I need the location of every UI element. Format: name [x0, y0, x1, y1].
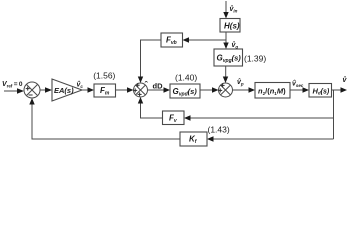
node label v_sec: [292, 79, 304, 88]
block H(s): [220, 19, 240, 33]
wire Gvpg to S3 top: [223, 66, 228, 83]
op-amp block EA(s): [52, 79, 82, 101]
node label v out: [343, 76, 348, 84]
summing junction S1: [24, 82, 40, 98]
equation label (1.43): [208, 125, 230, 135]
wire Fv to S2 bottom: [138, 97, 163, 118]
node label dD: [145, 80, 163, 91]
equation label (1.39): [244, 53, 266, 63]
wire S3 to transformer block: [233, 87, 256, 92]
input wire v_in: [223, 1, 228, 19]
label Vref = 0: [2, 81, 23, 88]
svg-text:dD: dD: [153, 82, 164, 91]
svg-text:(1.39): (1.39): [244, 53, 266, 63]
equation label (1.56): [93, 70, 115, 80]
svg-text:v̂in: v̂in: [230, 5, 238, 14]
block Fv: [163, 111, 185, 125]
wire feedback to block Fv: [184, 115, 334, 120]
block Gvpd(s): [170, 84, 200, 98]
wire EA to block Fm: [82, 87, 94, 92]
block Gvpg(s): [214, 49, 243, 66]
wire Fvb to S2 top: [138, 40, 161, 83]
svg-text:ˆ: ˆ: [145, 80, 149, 90]
block Kf: [180, 132, 207, 146]
equation label (1.40): [175, 73, 197, 83]
svg-text:v̂: v̂: [343, 76, 348, 84]
svg-text:Hd(s): Hd(s): [313, 86, 330, 95]
svg-text:EA(s): EA(s): [54, 86, 74, 95]
svg-text:(1.56): (1.56): [93, 70, 115, 80]
block n2/(n1M): [255, 83, 290, 99]
block Hd(s): [309, 84, 332, 98]
summing junction S3: [218, 83, 232, 97]
wire Vref to summing junction S1: [4, 88, 24, 93]
feedback vertical wire from output: [333, 90, 335, 139]
node label v_c: [77, 80, 84, 88]
svg-text:(1.43): (1.43): [208, 125, 230, 135]
wire H(s) to Gvpg with node vg: [223, 32, 228, 49]
node label v_p: [237, 78, 244, 87]
node label v_g: [232, 41, 239, 50]
svg-text:v̂g: v̂g: [232, 41, 239, 50]
summing junction S2: [133, 83, 147, 97]
output wire v: [332, 87, 348, 92]
wire Kf to S1 bottom: [29, 98, 180, 139]
svg-text:v̂p: v̂p: [237, 78, 244, 87]
svg-text:H(s): H(s): [224, 22, 240, 31]
wire tap vg to block Fvb: [183, 37, 227, 42]
wire transformer block to block Hd: [290, 87, 309, 92]
svg-text:v̂c: v̂c: [77, 80, 84, 88]
svg-text:n2/(n1M): n2/(n1M): [258, 87, 286, 97]
wire Gvpd to summing junction S3: [200, 87, 219, 92]
wire Fm to summing junction S2: [116, 87, 134, 92]
wire S1 to EA amplifier: [40, 87, 52, 92]
node label v_in: [230, 5, 238, 14]
wire feedback to block Kf: [207, 136, 334, 141]
block Fm: [94, 84, 116, 97]
svg-text:Vref = 0: Vref = 0: [2, 81, 23, 88]
wire S2 to block Gvpd: [148, 87, 171, 92]
block Fvb: [161, 33, 183, 47]
svg-text:v̂sec: v̂sec: [292, 79, 304, 88]
svg-text:(1.40): (1.40): [175, 73, 197, 83]
